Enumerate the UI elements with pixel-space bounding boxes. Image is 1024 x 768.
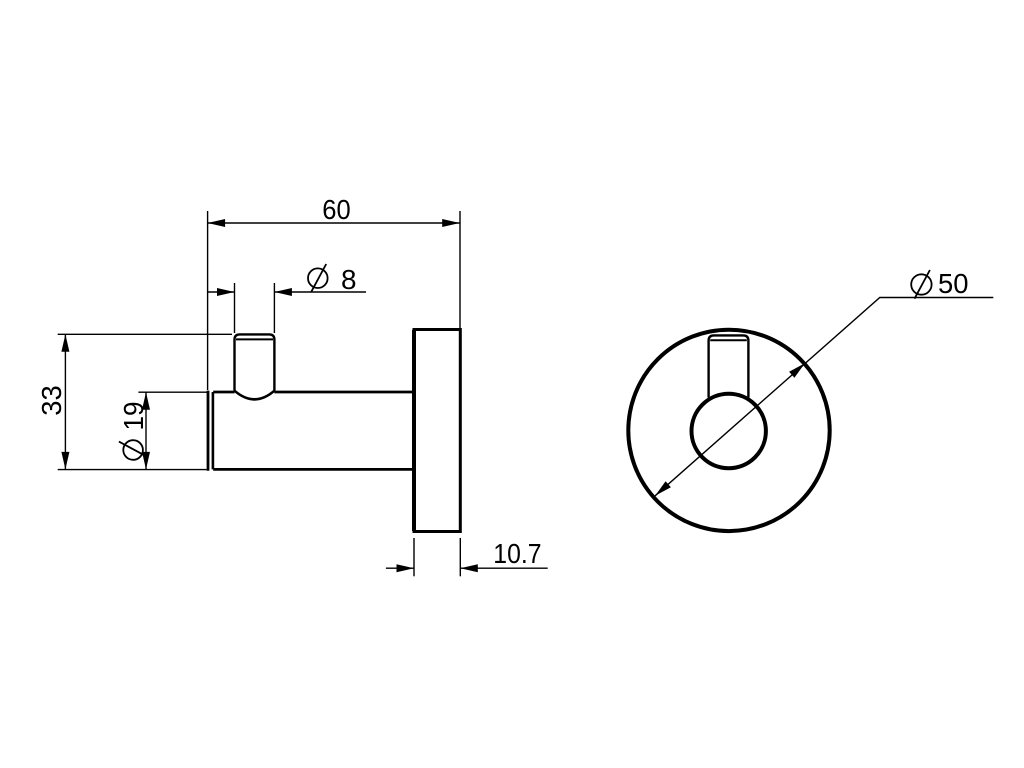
label dia8 symbol	[308, 264, 328, 292]
ext line dia19 top	[138, 391, 207, 393]
wire	[274, 391, 414, 394]
arrowhead dia8 right	[274, 288, 292, 296]
svg-text:19: 19	[118, 402, 149, 431]
svg-text:60: 60	[322, 194, 350, 225]
svg-text:50: 50	[938, 268, 969, 299]
ext line 33 bottom	[58, 469, 207, 471]
dim line 33	[64, 334, 66, 469]
dim line 60	[208, 222, 460, 224]
wire	[207, 391, 210, 471]
dim line dia19	[145, 392, 147, 469]
peg front outline	[709, 335, 749, 397]
dim line 10.7 right tail	[460, 567, 547, 569]
arrowhead dia50 lower	[655, 481, 671, 496]
arrowhead 33 bottom	[61, 452, 69, 470]
hub circle	[692, 394, 766, 468]
peg cap seam	[236, 338, 273, 340]
arrowhead 10.7 left	[397, 564, 415, 572]
svg-text:8: 8	[341, 264, 357, 295]
ext line 60 left	[207, 211, 209, 390]
arrowhead dia50 upper	[789, 363, 805, 378]
arrowhead 10.7 right	[460, 564, 478, 572]
wire	[213, 391, 234, 394]
dim line 10.7 left tail	[386, 567, 414, 569]
label dia19 (rotated)	[118, 402, 149, 460]
ext line 60 right	[459, 211, 461, 328]
label dia50 symbol	[911, 270, 931, 299]
peg side outline	[235, 334, 275, 390]
plate circle	[628, 330, 829, 531]
arrowhead dia19 bottom	[142, 452, 150, 470]
leader line dia50	[655, 298, 993, 496]
wire	[213, 468, 414, 471]
arrowhead dia8 left	[217, 288, 235, 296]
ext line dia8 left	[234, 283, 236, 333]
svg-text:33: 33	[36, 385, 67, 416]
ext line 10.7 right	[459, 538, 461, 576]
ext line 33 top	[58, 333, 232, 335]
arrowhead 60 left	[208, 219, 226, 227]
peg fillet arc	[235, 391, 275, 400]
svg-text:10.7: 10.7	[493, 538, 541, 569]
arrowhead 60 right	[442, 219, 460, 227]
ext line 10.7 left	[413, 538, 415, 576]
dim line dia8 left tail	[208, 291, 235, 293]
ext line dia8 right	[273, 283, 275, 333]
wall plate	[414, 330, 460, 532]
wire	[212, 392, 215, 469]
arrowhead dia19 top	[142, 392, 150, 410]
plate left edge (doubled)	[412, 330, 416, 531]
arrowhead 33 top	[61, 334, 69, 352]
dim line dia8 right tail	[274, 291, 366, 293]
peg front cap seam	[710, 339, 747, 341]
